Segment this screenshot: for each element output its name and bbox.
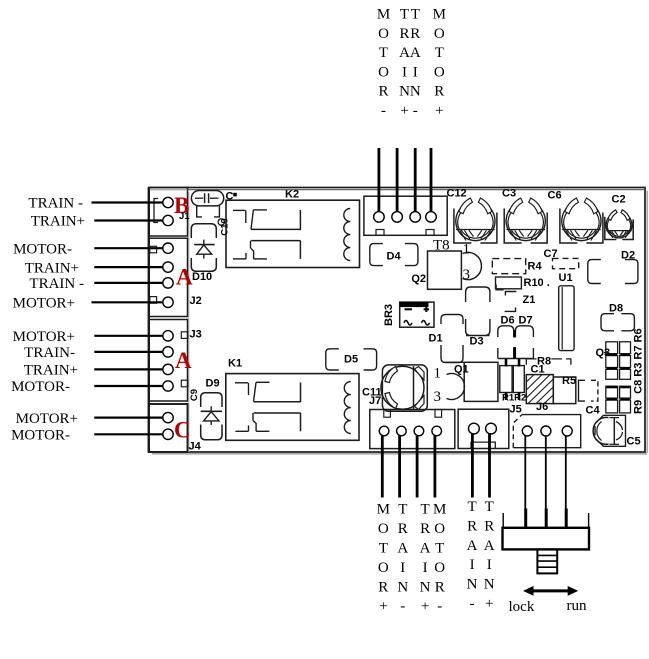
svg-text:TRAIN+: TRAIN+ [31, 214, 85, 230]
diode D4 body [370, 244, 383, 266]
pad J7-2 [397, 426, 407, 436]
svg-text:D10: D10 [192, 271, 212, 283]
pad T8-3 [410, 212, 421, 223]
D6/D7 centre pin ticks [513, 330, 515, 358]
IC U1 [559, 286, 574, 351]
pad J6-2 [541, 426, 551, 436]
PCB board outline [149, 188, 647, 454]
diode D7 body [515, 326, 533, 358]
capacitor C11 body [381, 365, 427, 411]
capacitor C2 body [605, 210, 633, 240]
svg-text:J3: J3 [190, 329, 202, 341]
switch end wings [503, 513, 588, 528]
svg-text:R1R2: R1R2 [502, 393, 526, 404]
svg-text:TRAIN+: TRAIN+ [24, 363, 78, 379]
svg-text:J6: J6 [536, 401, 548, 413]
diode D3 body [466, 287, 490, 336]
svg-text:D4: D4 [387, 251, 402, 263]
svg-text:C9: C9 [189, 389, 200, 401]
svg-text:3: 3 [463, 267, 471, 283]
svg-text:D2: D2 [621, 250, 635, 262]
svg-text:R10 .: R10 . [524, 277, 550, 289]
svg-text:MOTOR+: MOTOR+ [16, 411, 78, 427]
svg-text:MOTOR-: MOTOR- [11, 379, 70, 395]
wire leader MOTOR+ [92, 301, 163, 303]
capacitor C5 body [593, 415, 625, 446]
connector J4 block [149, 188, 188, 453]
capacitor C12 body [454, 198, 497, 243]
switch wires from J6 [525, 436, 566, 529]
svg-text:lock: lock [509, 599, 535, 615]
resistor R1 [500, 359, 512, 400]
pad J6-1 [522, 426, 532, 436]
capacitor C10 pad circle [218, 219, 224, 225]
wire leader MOTOR- [94, 385, 162, 387]
svg-text:MOTOR-: MOTOR- [13, 241, 72, 257]
pad J-left 11 (MOTOR+) [163, 412, 173, 422]
pad J-left 10 (MOTOR-) [163, 381, 173, 391]
resistor R5 [553, 377, 576, 404]
pad T8-1 [374, 212, 385, 223]
connector J3 block [149, 320, 188, 402]
svg-text:1: 1 [463, 242, 471, 258]
transistor Q2 body [428, 251, 462, 289]
wire J7-4 down [433, 436, 436, 498]
capacitor C1 (hatched) [526, 375, 553, 404]
wire J5-1 down [471, 433, 474, 498]
transistor Q2 can [463, 252, 482, 279]
switch stem [537, 549, 557, 573]
diode D2 body [588, 260, 601, 284]
relay K2 outline [226, 200, 360, 267]
capacitor C* (stadium) [191, 191, 223, 206]
pad J7-1 [379, 426, 389, 436]
wire T8-1 up [377, 148, 380, 212]
svg-text:J5: J5 [510, 404, 522, 416]
capacitor C7 body [553, 258, 579, 268]
J7 notch right [435, 410, 442, 418]
svg-text:D1: D1 [429, 333, 443, 345]
wire J5-2 down [488, 433, 491, 498]
bridge rectifier BR3 [400, 302, 434, 327]
svg-text:A: A [175, 348, 192, 373]
pad J5-1 [469, 423, 480, 434]
wire T8-4 up [430, 148, 433, 212]
notch square J2 bottom [150, 297, 157, 304]
capacitor C6 body [560, 198, 603, 243]
relay K2 coil [344, 209, 351, 261]
svg-text:A: A [176, 265, 193, 290]
diode D10 body [191, 224, 216, 271]
svg-text:D7: D7 [519, 315, 533, 327]
wire J7-3 down [416, 436, 419, 498]
resistor network Q3 ladder [606, 342, 631, 413]
svg-text:R4: R4 [528, 261, 543, 273]
svg-text:C2: C2 [612, 194, 626, 206]
J1 pin bracket [154, 199, 158, 223]
pad J-left 5 (TRAIN -) [163, 278, 173, 288]
svg-text:TRAIN -: TRAIN - [29, 276, 84, 292]
wire leader TRAIN - [92, 201, 163, 203]
wire leader TRAIN+ [94, 266, 162, 268]
connector J2 block [149, 238, 188, 316]
svg-text:J1: J1 [179, 211, 190, 222]
diode D9 symbol [201, 406, 222, 425]
svg-text:TRAIN-: TRAIN- [24, 345, 75, 361]
capacitor C4 body [579, 380, 598, 401]
wire leader MOTOR- [94, 247, 162, 249]
svg-text:D9: D9 [206, 378, 220, 390]
pad J-left 4 (TRAIN+) [163, 262, 173, 272]
svg-text:TRAIN+: TRAIN+ [25, 260, 79, 276]
wire leader TRAIN - [94, 282, 162, 284]
pad J7-4 [432, 426, 442, 436]
svg-text:R5: R5 [562, 375, 576, 387]
pad J-left 9 (TRAIN+) [163, 364, 173, 374]
diode D9 body [201, 393, 222, 440]
pad J6-3 [562, 426, 572, 436]
relay K1 outline [226, 374, 359, 441]
label C* [226, 191, 237, 203]
resistor R10 [496, 277, 522, 290]
connector J5 outline [458, 409, 509, 448]
svg-text:R8: R8 [537, 356, 551, 368]
relay K1 coil [344, 382, 351, 434]
J7 notch left [384, 410, 391, 418]
svg-text:C4: C4 [586, 405, 601, 417]
svg-text:C3: C3 [502, 188, 516, 200]
T8 notch right [426, 230, 434, 236]
pad J-left 8 (TRAIN-) [163, 347, 173, 357]
svg-text:1: 1 [434, 366, 442, 382]
diode D6 body [498, 326, 514, 358]
diode D10 symbol [194, 240, 214, 259]
svg-text:K2: K2 [285, 189, 299, 201]
svg-text:MOTOR-: MOTOR- [11, 428, 70, 444]
pad J-left 1 (TRAIN -) [163, 197, 173, 207]
notch square J3 bottom [181, 380, 188, 387]
resistor R4 [492, 259, 525, 274]
svg-text:C5: C5 [627, 436, 641, 448]
D6/D7 bottom rail [498, 358, 534, 360]
pad J-left 2 (TRAIN+) [163, 215, 173, 225]
pad T8-4 [426, 212, 437, 223]
wire leader MOTOR+ [94, 335, 162, 337]
resistor R8 dashes [526, 359, 571, 365]
wire leader MOTOR- [94, 433, 162, 435]
wire leader TRAIN+ [94, 368, 162, 370]
wire T8-2 up [396, 148, 399, 212]
T8 notch left [376, 230, 384, 236]
svg-text:BR3: BR3 [383, 304, 395, 326]
transistor Q1 tab [464, 362, 498, 401]
pad J-left 7 (MOTOR+) [163, 331, 173, 341]
connector J1 block [149, 188, 188, 237]
connector J7 outline [370, 410, 455, 449]
wire J7-2 down [398, 436, 401, 498]
svg-text:J7: J7 [369, 395, 381, 407]
svg-text:TRAIN -: TRAIN - [28, 196, 83, 212]
diode D1 body [441, 315, 463, 363]
svg-text:C: C [174, 417, 191, 442]
connector J6 outline [513, 415, 580, 448]
pad J-left 6 (MOTOR+) [163, 297, 173, 307]
capacitor C3 body [504, 198, 547, 243]
svg-text:K1: K1 [228, 358, 242, 370]
wire J7-1 down [381, 436, 384, 498]
transistor Q1 can [447, 374, 465, 400]
svg-text:J4: J4 [189, 441, 202, 453]
svg-text:C10: C10 [220, 218, 231, 235]
svg-text:C12: C12 [447, 188, 467, 200]
svg-text:D6: D6 [501, 315, 515, 327]
resistor R2 [513, 359, 524, 400]
svg-text:Q1: Q1 [454, 363, 469, 375]
pad J5-2 [486, 423, 497, 434]
pad J-left 12 (MOTOR-) [163, 429, 173, 439]
svg-text:MOTOR+: MOTOR+ [13, 296, 75, 312]
svg-text:Q2: Q2 [411, 273, 426, 285]
notch square J3 top [181, 332, 188, 339]
pad J-left 3 (MOTOR-) [163, 243, 173, 253]
svg-text:D5: D5 [344, 354, 358, 366]
svg-text:C6: C6 [548, 190, 562, 202]
svg-text:D8: D8 [609, 303, 623, 315]
diode D5 body [326, 349, 339, 370]
wire T8-3 up [414, 148, 417, 212]
slide arrow [523, 586, 578, 596]
notch square J2 top [150, 246, 157, 253]
wire leader TRAIN- [94, 351, 162, 353]
diode D8 body [601, 314, 614, 331]
svg-text:MOTOR+: MOTOR+ [13, 329, 75, 345]
connector T8 outline [364, 196, 447, 235]
relay K2 contacts [233, 210, 301, 259]
pad J7-3 [414, 426, 424, 436]
svg-text:Z1: Z1 [523, 294, 536, 306]
pad T8-2 [392, 212, 403, 223]
capacitor C10 bracket [197, 206, 220, 217]
wire leader MOTOR+ [94, 417, 162, 419]
svg-text:U1: U1 [559, 272, 573, 284]
svg-text:R9 C8 R3 R7 R6: R9 C8 R3 R7 R6 [633, 328, 645, 414]
switch body [503, 528, 590, 550]
svg-text:J2: J2 [190, 295, 202, 307]
relay K1 contacts [235, 382, 301, 431]
svg-text:D3: D3 [470, 336, 484, 348]
zener Z1 [505, 292, 517, 312]
svg-text:run: run [567, 598, 587, 614]
svg-text:3: 3 [434, 389, 442, 405]
wire leader TRAIN+ [94, 219, 162, 221]
